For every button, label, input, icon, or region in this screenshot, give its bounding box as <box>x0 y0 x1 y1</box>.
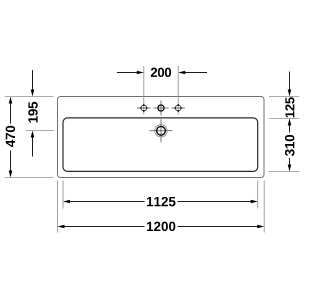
tap hole left crosshair vertical / extension line of 200 dim <box>143 66 145 115</box>
dim 200: left dimension line + arrow <box>117 71 144 75</box>
drain hole <box>150 119 173 142</box>
bottom extension line inner-left <box>62 181 64 209</box>
left extension line bottom (front edge) <box>5 177 54 179</box>
left extension line at drain level <box>26 130 54 132</box>
left extension line top (back edge) <box>5 96 54 98</box>
dim 1125: label <box>147 197 176 206</box>
dim 310: label <box>285 135 295 156</box>
dim 470: label <box>6 126 15 147</box>
dim 200: label <box>151 68 171 77</box>
dim 125: label <box>285 97 294 117</box>
right extension line inner bottom <box>269 171 299 173</box>
right extension line inner top <box>269 118 299 120</box>
bottom extension line outer-left <box>57 181 59 233</box>
dim 1200: label <box>147 222 175 231</box>
dim 125: upper leader + arrow <box>288 72 292 97</box>
right extension line top (back edge) <box>269 96 299 98</box>
dim 310: dimension line with arrows <box>288 119 292 172</box>
dim 195: label <box>28 102 37 123</box>
tap hole right crosshair vertical / extension line of 200 dim <box>177 66 179 115</box>
dim 1200: dimension line with arrows <box>58 225 265 229</box>
dim 470: dimension line with arrows <box>9 97 13 178</box>
basin inner bowl edge <box>63 118 258 171</box>
bottom extension line outer-right <box>263 181 265 233</box>
dim 1125: dimension line with arrows <box>63 200 258 204</box>
tap hole centre <box>154 101 169 116</box>
tap hole left <box>137 104 150 112</box>
bottom extension line inner-right <box>257 181 259 209</box>
tap hole right <box>172 104 185 112</box>
dim 195: upper leader + arrow <box>31 70 35 97</box>
basin outer rim (top view) <box>58 97 265 178</box>
dim 195: lower leader + arrow <box>31 131 35 157</box>
dim 200: right dimension line + arrow <box>178 71 207 75</box>
